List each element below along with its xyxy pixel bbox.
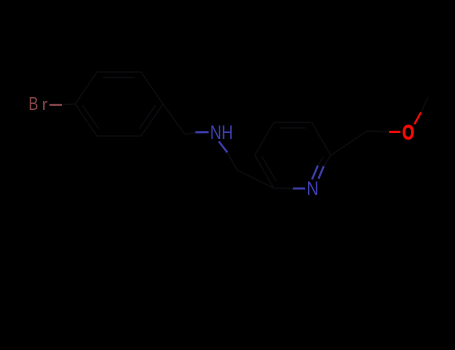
benzene ring: inner double line C4-C5 xyxy=(139,105,155,129)
bond O-CH3 oxygen half (visible red diagonal stub) xyxy=(414,112,421,124)
benzene ring: edge C6-C1 xyxy=(75,104,97,136)
pyridine ring: edge C3-C4 xyxy=(274,121,312,123)
pyridine ring: inner double line N1=C2 carbon half (hidden) xyxy=(318,157,324,166)
bond N1=C2 inner double line nitrogen half (visible blue diagonal) xyxy=(312,166,318,180)
wire: bond C6'-N1 carbon half (hidden) xyxy=(274,187,293,189)
bond CH2d-O oxygen half (visible red stub) xyxy=(389,131,400,133)
pyridine ring: inner double line C5-C6 xyxy=(262,157,276,181)
benzene ring: edge C5-C6 xyxy=(97,135,141,137)
svg-text:O: O xyxy=(402,121,414,144)
wire: bond CH2b-NH carbon half (hidden) xyxy=(185,132,195,134)
benzene ring: edge C2-C3 xyxy=(97,71,141,73)
wire: bond CH2d-O carbon half (hidden) xyxy=(367,130,389,133)
wire: bond NH-CH2c carbon half (hidden) xyxy=(227,152,237,170)
benzene ring: edge C4-C5 xyxy=(141,104,163,136)
wire: bond Br-C1 carbon half (hidden) xyxy=(62,103,75,106)
bond Br-C1 bromine half (visible dark red stub) xyxy=(50,104,63,106)
benzene ring: inner double line C6-C1 xyxy=(82,105,98,129)
pyridine ring: bond N1=C2 main line carbon half (hidden) xyxy=(324,155,331,166)
pyridine ring: edge C5-C6 xyxy=(255,155,274,188)
pyridine ring: inner double line C3-C4 xyxy=(280,127,306,129)
wire: bond C4-CH2b (hidden) xyxy=(163,104,185,135)
wire: bond C2-CH2d (hidden) xyxy=(331,131,367,155)
bond CH2b-NH nitrogen half (visible blue stub) xyxy=(195,131,208,133)
benzene ring: edge C3-C4 xyxy=(141,72,163,104)
benzene ring: inner double line C2-C3 xyxy=(103,77,135,79)
pyridine ring: edge C2-C3 xyxy=(312,122,331,155)
benzene ring: edge C1-C2 xyxy=(75,72,97,104)
svg-text:B: B xyxy=(29,94,39,114)
svg-text:r: r xyxy=(42,95,48,114)
bond NH-CH2c nitrogen half (visible blue diagonal stub) xyxy=(219,141,228,152)
pyridine ring: edge C4-C5 xyxy=(255,122,274,155)
svg-text:N: N xyxy=(307,178,319,200)
wire: bond O-CH3 carbon half (hidden) xyxy=(421,97,428,112)
svg-text:NH: NH xyxy=(210,122,233,144)
bond N1=C2 main line nitrogen half (visible blue diagonal) xyxy=(319,166,324,179)
wire: bond CH2c-C6' (hidden) xyxy=(237,170,274,188)
bond C6'-N1 nitrogen half (visible blue stub) xyxy=(293,188,305,190)
